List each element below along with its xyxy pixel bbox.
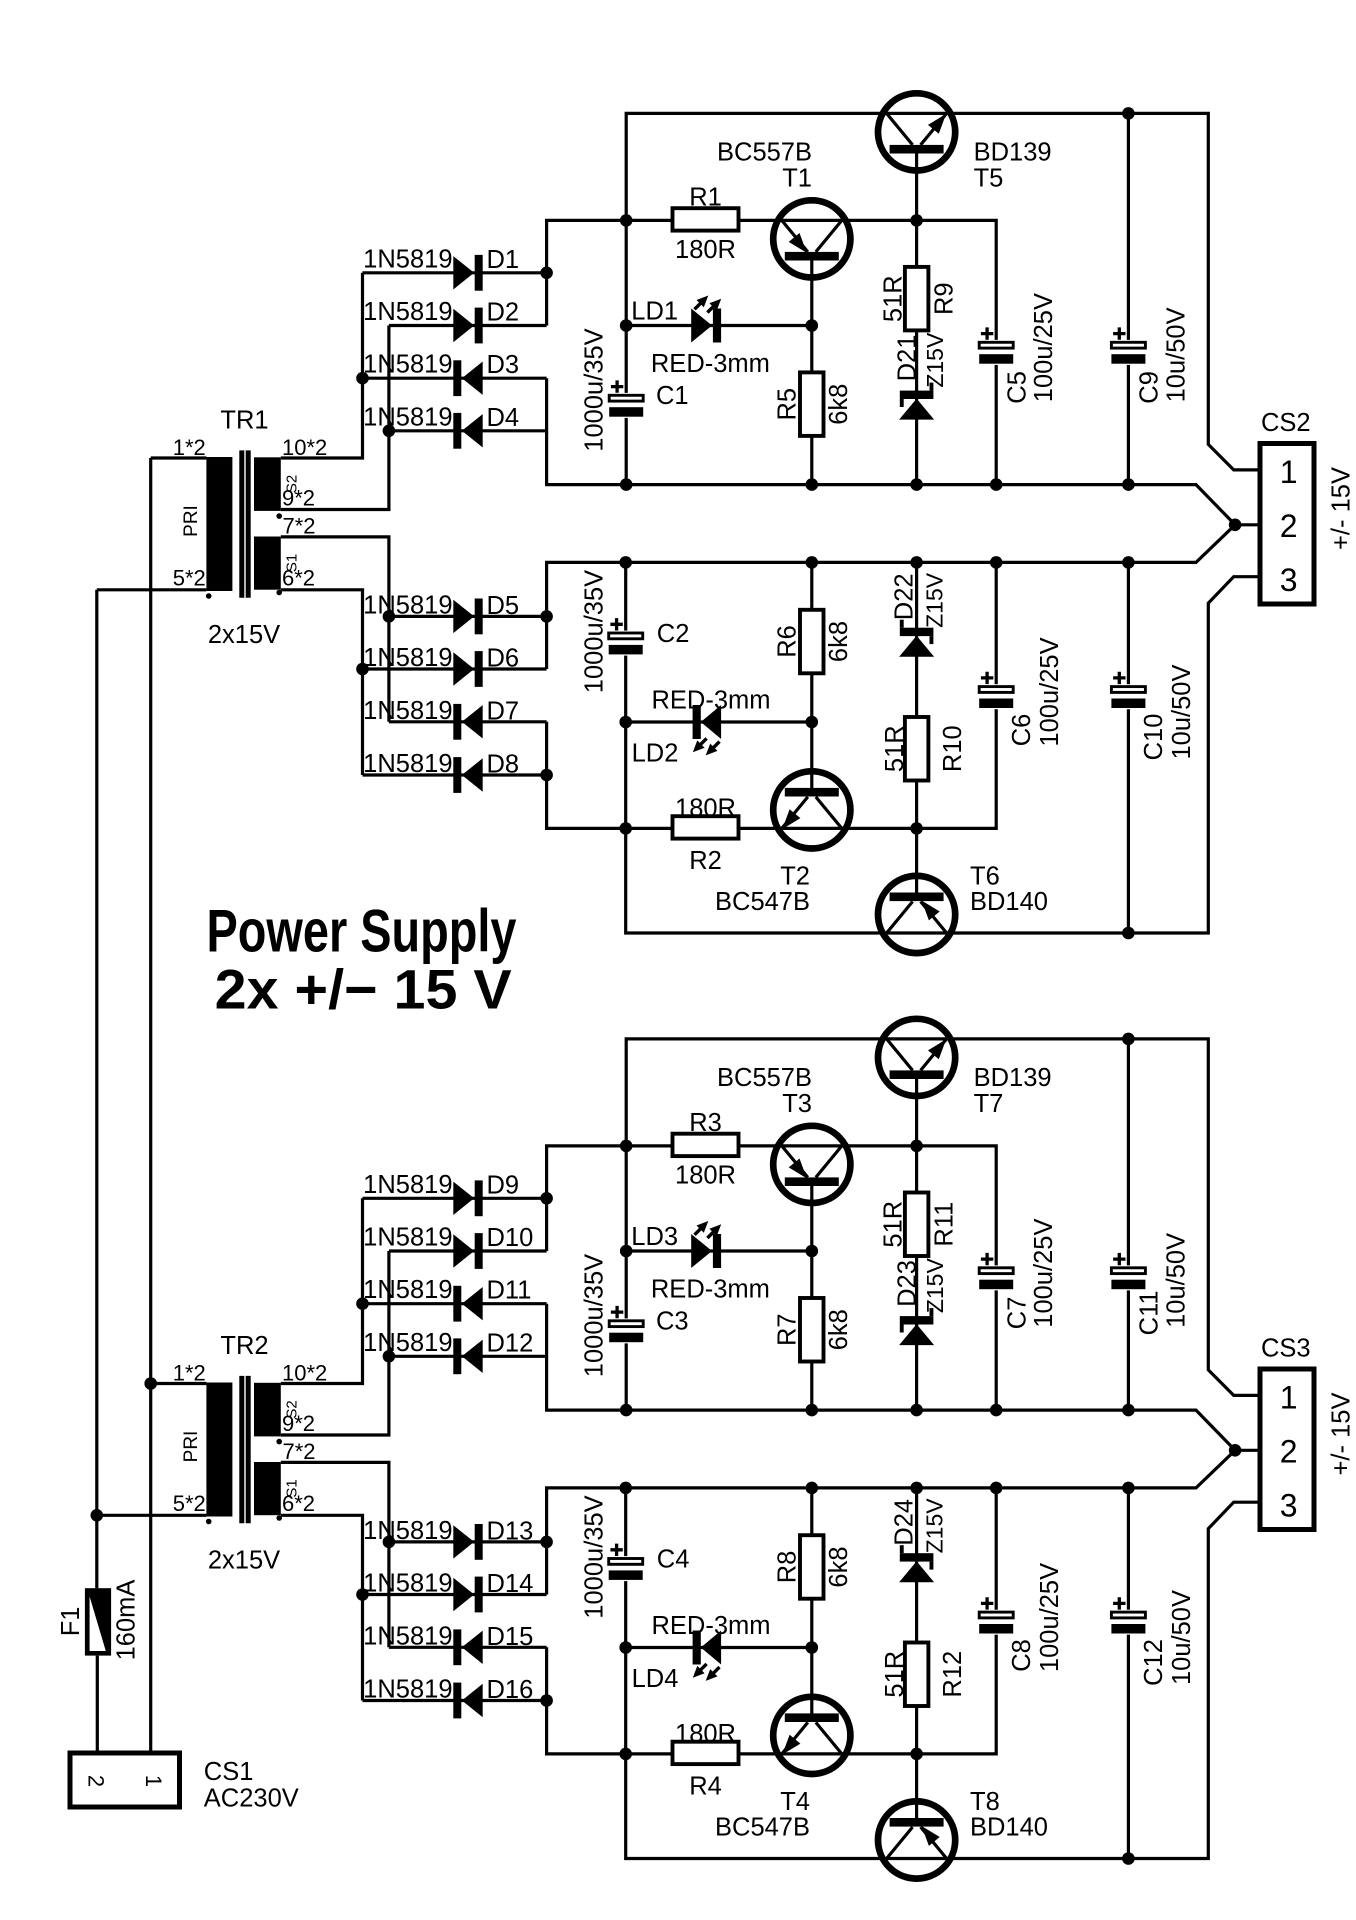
svg-text:D1: D1 — [487, 246, 520, 274]
diode D7 (1N5819) — [363, 697, 519, 740]
svg-text:1000u/35V: 1000u/35V — [581, 570, 609, 693]
wire C1 column — [625, 220, 628, 484]
diode D8 (1N5819) — [363, 750, 519, 793]
wire D6 row — [363, 667, 547, 670]
svg-text:7*2: 7*2 — [283, 1439, 316, 1464]
resistor R10 — [881, 717, 967, 781]
capacitor C10 — [1110, 664, 1196, 760]
wire C12 column — [1127, 1488, 1130, 1859]
svg-text:7*2: 7*2 — [283, 514, 316, 539]
svg-text:T8: T8 — [970, 1788, 1000, 1816]
svg-text:1N5819: 1N5819 — [363, 1622, 452, 1650]
wire mains line 2 (TR1 5*2 down) — [95, 590, 98, 1588]
diode D9 (1N5819) — [363, 1171, 519, 1216]
junction rail1 C9 — [1122, 1404, 1135, 1417]
diode D16 (1N5819) — [363, 1676, 533, 1719]
connector CS2 (+/- 15V output) — [1260, 409, 1356, 604]
svg-text:2x15V: 2x15V — [208, 1547, 280, 1575]
svg-text:180R: 180R — [675, 1720, 736, 1748]
svg-text:D15: D15 — [487, 1623, 534, 1651]
svg-text:C12: C12 — [1140, 1639, 1168, 1686]
junction rail2 R6 — [806, 556, 819, 569]
wire 0V rail lower block — [547, 525, 1236, 669]
wire winding 10*2 feeder — [281, 273, 363, 458]
svg-text:5*2: 5*2 — [173, 1491, 206, 1516]
svg-text:1N5819: 1N5819 — [363, 1329, 452, 1357]
capacitor C12 — [1110, 1590, 1196, 1686]
junction rail2 C2 — [619, 1482, 632, 1495]
svg-text:6k8: 6k8 — [825, 621, 853, 662]
wire LED LD4 row — [626, 1646, 812, 1649]
svg-text:RED-3mm: RED-3mm — [651, 1276, 770, 1304]
svg-text:100u/25V: 100u/25V — [1036, 637, 1064, 746]
wire R8 / T4 base column — [810, 1488, 813, 1715]
svg-text:C6: C6 — [1008, 714, 1036, 747]
svg-text:R7: R7 — [774, 1313, 802, 1346]
junction D5 out — [540, 1536, 553, 1549]
wire winding 9*2 feeder — [281, 326, 389, 510]
svg-text:5*2: 5*2 — [173, 566, 206, 591]
wire D3 row — [363, 377, 547, 380]
svg-text:180R: 180R — [675, 1162, 736, 1190]
transistor T1 — [717, 139, 850, 278]
junction D5 out — [540, 610, 553, 623]
svg-text:BD140: BD140 — [970, 888, 1048, 916]
title text — [207, 898, 517, 1021]
zener diode D23 (Z15V) — [894, 1258, 948, 1346]
svg-text:D3: D3 — [487, 351, 520, 379]
svg-text:TR2: TR2 — [220, 1332, 268, 1360]
junction D1 out — [540, 267, 553, 280]
transformer TR2 (2x15V) — [173, 1332, 328, 1575]
svg-text:3: 3 — [1280, 1487, 1298, 1523]
svg-text:1N5819: 1N5819 — [363, 403, 452, 431]
transistor T8 — [878, 1788, 1048, 1879]
junction rail1 C5 — [990, 1404, 1003, 1417]
svg-text:1N5819: 1N5819 — [363, 591, 452, 619]
svg-text:R3: R3 — [689, 1109, 722, 1137]
wire 0V rail upper block — [547, 378, 1261, 525]
resistor R1 — [673, 184, 739, 265]
junction rail1 C5 — [990, 478, 1003, 491]
wire D11 row — [363, 1302, 547, 1305]
fuse F1 (160mA) — [57, 1580, 141, 1661]
junction T5 base node — [910, 214, 923, 227]
junction D5 feeder — [383, 1536, 396, 1549]
svg-text:100u/25V: 100u/25V — [1030, 293, 1058, 402]
svg-text:S1: S1 — [284, 554, 301, 572]
svg-text:1N5819: 1N5819 — [363, 298, 452, 326]
svg-text:T2: T2 — [780, 863, 810, 891]
svg-text:D23: D23 — [894, 1260, 922, 1307]
diode D3 (1N5819) — [363, 351, 519, 396]
junction D6 feeder — [356, 1588, 369, 1601]
wire C4 column to -raw rail — [626, 1488, 1261, 1859]
junction D4 out — [383, 425, 396, 438]
svg-text:51R: 51R — [880, 1201, 908, 1248]
capacitor C9 — [1110, 307, 1190, 403]
wire C10 column — [1127, 562, 1130, 933]
junction T2 collector node — [910, 1748, 923, 1761]
svg-text:R4: R4 — [689, 1772, 722, 1800]
junction LED row right — [806, 319, 819, 332]
svg-text:R12: R12 — [939, 1651, 967, 1698]
capacitor C8 — [978, 1563, 1064, 1672]
capacitor C6 — [978, 637, 1064, 746]
connector CS3 (+/- 15V output) — [1260, 1335, 1356, 1530]
svg-text:1N5819: 1N5819 — [363, 1276, 452, 1304]
svg-text:51R: 51R — [880, 275, 908, 322]
zener diode D21 (Z15V) — [894, 332, 948, 420]
svg-text:T7: T7 — [974, 1090, 1004, 1118]
resistor R7 — [774, 1298, 854, 1362]
wire T5 base column — [915, 153, 918, 485]
wire LED LD3 row — [626, 1249, 812, 1252]
resistor R8 — [774, 1535, 854, 1599]
svg-text:R9: R9 — [931, 282, 959, 315]
wire T4 collector row to C8 — [737, 1488, 996, 1754]
wire primary 1*2 wire — [151, 1382, 207, 1385]
svg-text:C8: C8 — [1008, 1639, 1036, 1672]
junction LED2 row left — [619, 716, 632, 729]
svg-text:C4: C4 — [657, 1546, 690, 1574]
svg-text:+/- 15V: +/- 15V — [1328, 467, 1356, 550]
svg-text:1N5819: 1N5819 — [363, 1224, 452, 1252]
svg-text:T1: T1 — [782, 165, 812, 193]
svg-text:RED-3mm: RED-3mm — [651, 350, 770, 378]
diode D2 (1N5819) — [363, 298, 519, 343]
wire 0V rail upper block — [547, 1304, 1261, 1451]
svg-text:100u/25V: 100u/25V — [1036, 1563, 1064, 1672]
svg-text:1N5819: 1N5819 — [363, 1517, 452, 1545]
wire D9 row — [363, 1197, 547, 1200]
wire D16 row — [363, 1699, 547, 1702]
svg-text:C7: C7 — [1004, 1297, 1032, 1330]
junction rail2 R6 — [806, 1482, 819, 1495]
connector CS1 (AC230V mains input) — [70, 1753, 299, 1813]
svg-text:D6: D6 — [487, 645, 520, 673]
svg-text:1N5819: 1N5819 — [363, 1570, 452, 1598]
wire D4 row — [389, 429, 547, 432]
resistor R6 — [774, 610, 854, 674]
svg-text:1N5819: 1N5819 — [363, 351, 452, 379]
svg-text:Z15V: Z15V — [922, 1498, 948, 1554]
svg-text:1*2: 1*2 — [173, 1361, 206, 1386]
wire D8 row — [363, 773, 547, 776]
junction LED row left — [620, 319, 633, 332]
transistor T6 — [878, 863, 1048, 954]
junction rail3 C10 — [1122, 927, 1135, 940]
junction rail2 C6 — [990, 556, 1003, 569]
wire R6 / T2 base column — [810, 562, 813, 789]
svg-text:Power Supply: Power Supply — [207, 898, 517, 965]
junction node raw+ / C top — [620, 1140, 633, 1153]
diode D6 (1N5819) — [363, 644, 519, 687]
svg-text:10u/50V: 10u/50V — [1168, 1590, 1196, 1685]
wire D1/D2 cathodes to R1 — [547, 220, 674, 325]
svg-text:D4: D4 — [487, 404, 520, 432]
wire D7 row — [389, 720, 547, 723]
wire T3 base / R7 column — [810, 1185, 813, 1410]
LED LD4 (RED-3mm) — [632, 1612, 771, 1693]
svg-text:BD139: BD139 — [974, 1064, 1052, 1092]
svg-text:PRI: PRI — [181, 1431, 202, 1463]
svg-text:R1: R1 — [689, 184, 722, 212]
svg-text:T4: T4 — [780, 1788, 810, 1816]
junction LED row left — [620, 1245, 633, 1258]
wire T1 base / R5 column — [810, 260, 813, 485]
svg-text:1N5819: 1N5819 — [363, 1171, 452, 1199]
junction rail2 C10 — [1122, 1482, 1135, 1495]
resistor R3 — [673, 1109, 739, 1190]
svg-text:10*2: 10*2 — [282, 1361, 327, 1386]
junction D5 feeder — [383, 610, 396, 623]
wire C9 column — [1127, 113, 1130, 484]
diode D14 (1N5819) — [363, 1570, 533, 1613]
LED LD3 (RED-3mm) — [631, 1221, 770, 1304]
wire raw+ rail top T5 — [626, 113, 1261, 470]
wire T7 base column — [915, 1078, 918, 1410]
diode D4 (1N5819) — [363, 403, 519, 448]
svg-text:R11: R11 — [931, 1202, 959, 1247]
svg-text:RED-3mm: RED-3mm — [652, 687, 771, 715]
svg-text:LD3: LD3 — [631, 1223, 678, 1251]
svg-text:BD139: BD139 — [974, 139, 1052, 167]
diode D12 (1N5819) — [363, 1329, 533, 1374]
junction T2 collector node — [910, 822, 923, 835]
wire T8 base stub — [915, 1754, 918, 1822]
svg-text:+/- 15V: +/- 15V — [1328, 1393, 1356, 1476]
LED LD2 (RED-3mm) — [632, 687, 771, 768]
svg-text:T6: T6 — [970, 863, 1000, 891]
wire C2 column to -raw rail — [626, 562, 1261, 933]
svg-text:D16: D16 — [487, 1676, 534, 1704]
svg-text:1N5819: 1N5819 — [363, 750, 452, 778]
svg-text:TR1: TR1 — [220, 407, 268, 435]
svg-text:6k8: 6k8 — [825, 384, 853, 425]
wire zener D22 / R10 column — [915, 562, 918, 828]
transformer TR1 (2x15V) — [173, 407, 328, 650]
junction rail2 zener — [910, 1482, 923, 1495]
svg-text:LD4: LD4 — [632, 1665, 679, 1693]
svg-text:D7: D7 — [487, 697, 520, 725]
wire winding 6*2 feeder — [281, 1515, 363, 1700]
svg-text:2: 2 — [1280, 1434, 1298, 1470]
capacitor C2 — [581, 570, 644, 693]
svg-text:1: 1 — [1280, 454, 1298, 490]
svg-text:160mA: 160mA — [113, 1580, 141, 1661]
diode D10 (1N5819) — [363, 1224, 533, 1269]
svg-text:BC547B: BC547B — [715, 1814, 810, 1842]
junction D6 feeder — [356, 663, 369, 676]
svg-text:C1: C1 — [656, 382, 689, 410]
wire winding 7*2 feeder — [281, 1462, 389, 1647]
junction D4 out — [383, 1350, 396, 1363]
zener diode D22 (Z15V) — [890, 572, 947, 656]
wire LED LD1 row — [626, 324, 812, 327]
junction rail1 C1 — [620, 1404, 633, 1417]
wire D13 row — [389, 1540, 547, 1543]
svg-text:51R: 51R — [881, 725, 909, 772]
resistor R4 — [673, 1720, 739, 1800]
wire primary 5*2 wire — [97, 588, 207, 591]
wire D5 row — [389, 615, 547, 618]
svg-text:D2: D2 — [487, 299, 520, 327]
svg-text:R8: R8 — [774, 1551, 802, 1584]
svg-text:1: 1 — [141, 1775, 166, 1787]
svg-text:1000u/35V: 1000u/35V — [581, 1495, 609, 1618]
junction TR2 primary 5*2 tap — [91, 1509, 104, 1522]
svg-text:D9: D9 — [487, 1171, 520, 1199]
svg-text:6k8: 6k8 — [825, 1546, 853, 1587]
junction rail1 C9 — [1122, 478, 1135, 491]
wire D7/D8 anodes to R2 — [547, 722, 674, 829]
svg-text:D11: D11 — [487, 1277, 532, 1305]
svg-text:R5: R5 — [774, 388, 802, 421]
resistor R9 — [880, 267, 959, 331]
svg-text:10*2: 10*2 — [282, 435, 327, 460]
svg-text:C10: C10 — [1140, 714, 1168, 761]
junction rail1 zener — [910, 478, 923, 491]
svg-text:CS2: CS2 — [1261, 409, 1311, 437]
wire D12 row — [389, 1355, 547, 1358]
wire T3 emitter row to C7 — [737, 1146, 996, 1410]
capacitor C11 — [1110, 1233, 1190, 1335]
junction D3 out — [356, 372, 369, 385]
junction D8 out — [540, 1694, 553, 1707]
svg-text:PRI: PRI — [181, 505, 202, 537]
svg-text:LD2: LD2 — [632, 740, 679, 768]
wire T2 collector row to C6 — [737, 562, 996, 828]
svg-text:1000u/35V: 1000u/35V — [581, 328, 609, 451]
svg-text:R10: R10 — [939, 725, 967, 772]
junction rail3 C10 — [1122, 1852, 1135, 1865]
resistor R11 — [880, 1193, 959, 1257]
junction rail1 R5 — [806, 1404, 819, 1417]
resistor R12 — [881, 1643, 967, 1707]
transistor T3 — [717, 1064, 850, 1203]
resistor R2 — [673, 795, 739, 875]
svg-text:D22: D22 — [890, 573, 918, 620]
svg-text:Z15V: Z15V — [922, 572, 948, 628]
wire T1 emitter row to C5 — [737, 220, 996, 484]
svg-text:T3: T3 — [782, 1090, 812, 1118]
transistor T5 — [878, 93, 1052, 192]
svg-text:BC557B: BC557B — [717, 1064, 812, 1092]
svg-text:LD1: LD1 — [631, 298, 678, 326]
svg-text:51R: 51R — [881, 1651, 909, 1698]
capacitor C7 — [978, 1219, 1058, 1330]
svg-text:CS1: CS1 — [204, 1758, 254, 1786]
wire zener D24 / R12 column — [915, 1488, 918, 1754]
junction R2 row left — [619, 822, 632, 835]
svg-text:180R: 180R — [675, 236, 736, 264]
svg-text:BD140: BD140 — [970, 1814, 1048, 1842]
svg-text:F1: F1 — [57, 1607, 85, 1637]
svg-text:1N5819: 1N5819 — [363, 1676, 452, 1704]
svg-text:10u/50V: 10u/50V — [1162, 1233, 1190, 1328]
junction rail2 zener — [910, 556, 923, 569]
svg-text:10u/50V: 10u/50V — [1168, 664, 1196, 759]
wire raw+ rail top T7 — [626, 1039, 1261, 1396]
capacitor C3 — [581, 1254, 645, 1377]
capacitor C1 — [581, 328, 645, 451]
junction pin2 node — [1229, 519, 1242, 532]
junction rail top C9 — [1122, 107, 1135, 120]
svg-text:2x +/− 15 V: 2x +/− 15 V — [215, 958, 512, 1021]
junction LED2 row right — [806, 1641, 819, 1654]
junction D3 out — [356, 1297, 369, 1310]
junction LED2 row right — [806, 716, 819, 729]
svg-text:D21: D21 — [894, 335, 922, 382]
wire winding 10*2 feeder — [281, 1198, 363, 1383]
svg-text:R2: R2 — [689, 847, 722, 875]
svg-text:D13: D13 — [487, 1517, 534, 1545]
svg-text:1N5819: 1N5819 — [363, 697, 452, 725]
svg-text:D12: D12 — [487, 1329, 534, 1357]
junction rail2 C6 — [990, 1482, 1003, 1495]
diode D11 (1N5819) — [363, 1276, 531, 1321]
wire D15/D16 anodes to R4 — [547, 1647, 674, 1754]
wire fuse to CS1 pin2 — [96, 1656, 99, 1753]
wire 0V rail lower block — [547, 1450, 1236, 1594]
svg-text:S2: S2 — [284, 475, 301, 493]
diode D15 (1N5819) — [363, 1622, 533, 1665]
svg-text:1N5819: 1N5819 — [363, 245, 452, 273]
junction rail2 C2 — [619, 556, 632, 569]
svg-text:D14: D14 — [487, 1570, 534, 1598]
wire primary 5*2 wire — [97, 1514, 206, 1517]
svg-text:Z15V: Z15V — [922, 332, 948, 388]
svg-text:10u/50V: 10u/50V — [1162, 307, 1190, 402]
svg-text:6k8: 6k8 — [825, 1309, 853, 1350]
svg-text:180R: 180R — [675, 795, 736, 823]
wire winding 6*2 feeder — [281, 590, 363, 775]
junction R2 row left — [619, 1748, 632, 1761]
svg-text:BC547B: BC547B — [715, 888, 810, 916]
junction D1 out — [540, 1192, 553, 1205]
svg-text:C11: C11 — [1136, 1290, 1164, 1335]
diode D1 (1N5819) — [363, 245, 519, 290]
svg-text:C5: C5 — [1004, 371, 1032, 404]
junction D8 out — [540, 769, 553, 782]
junction rail1 C1 — [620, 478, 633, 491]
junction rail top C9 — [1122, 1033, 1135, 1046]
svg-text:T5: T5 — [974, 165, 1004, 193]
wire D10 row — [389, 1249, 547, 1252]
wire winding 7*2 feeder — [281, 537, 389, 722]
svg-text:CS3: CS3 — [1261, 1335, 1311, 1363]
LED LD1 (RED-3mm) — [631, 296, 770, 379]
wire primary 1*2 wire — [151, 456, 207, 459]
junction rail2 C10 — [1122, 556, 1135, 569]
svg-text:BC557B: BC557B — [717, 139, 812, 167]
capacitor C5 — [978, 293, 1058, 404]
svg-text:100u/25V: 100u/25V — [1030, 1219, 1058, 1328]
junction node raw+ / C top — [620, 214, 633, 227]
wire mains line 1 (CS1 pin1 to primaries) — [149, 458, 152, 1753]
svg-text:3: 3 — [1280, 562, 1298, 598]
capacitor C4 — [581, 1495, 644, 1618]
diode D13 (1N5819) — [363, 1517, 533, 1560]
junction LED row right — [806, 1245, 819, 1258]
svg-text:1: 1 — [1280, 1380, 1298, 1416]
svg-text:C3: C3 — [656, 1308, 689, 1336]
junction TR2 primary 1*2 tap — [144, 1377, 157, 1390]
svg-text:AC230V: AC230V — [204, 1785, 299, 1813]
wire D9/D10 cathodes to R3 — [547, 1146, 674, 1251]
svg-text:1000u/35V: 1000u/35V — [581, 1254, 609, 1377]
